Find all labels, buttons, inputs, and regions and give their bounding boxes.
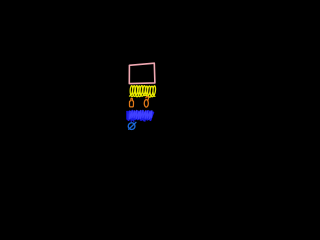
black drawing canvas	[0, 0, 200, 157]
blue zigzag scribble layer 1	[127, 111, 153, 120]
blue zigzag scribble layer 3	[128, 113, 151, 120]
yellow loop scribble (coil)	[130, 86, 156, 98]
blue scribble tails below	[131, 119, 145, 122]
pink hand-drawn rectangle (frame)	[129, 63, 155, 83]
blue scribble base mass	[127, 111, 153, 120]
blue circle with slash (bottom doodle)	[128, 123, 135, 130]
orange drop/egg shape with stem (right)	[144, 100, 148, 108]
blue zigzag scribble layer 4 (bright)	[130, 110, 152, 118]
blue zigzag scribble layer 2	[128, 111, 153, 120]
orange bottle shape (left)	[130, 98, 134, 107]
